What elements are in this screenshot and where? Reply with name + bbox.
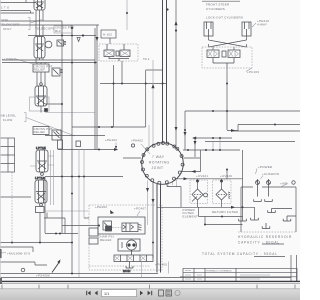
svg-text:FLOW: FLOW: [3, 118, 12, 122]
svg-text:+AIR: +AIR: [280, 182, 288, 186]
wire: [126, 0, 128, 30]
power filter F1: [190, 179, 208, 208]
flow arrows: [96, 21, 236, 209]
title block cell marks: [185, 271, 270, 280]
wire: [71, 25, 73, 274]
tank symbol T5: [283, 216, 296, 221]
wire: [0, 273, 158, 275]
label PH402b: [95, 205, 114, 214]
wire: [62, 225, 98, 227]
wire: [45, 176, 123, 178]
charge relief block: [98, 217, 145, 234]
breather B2: [267, 179, 271, 197]
nav next button: [140, 291, 152, 295]
wire: [149, 60, 153, 147]
wire: [113, 65, 115, 127]
wire: [147, 181, 149, 226]
label lower: [2, 57, 33, 64]
svg-text:+MU100W SYS: +MU100W SYS: [7, 252, 30, 256]
svg-text:RETURN FILTER: RETURN FILTER: [212, 210, 239, 214]
svg-text:+PH102: +PH102: [105, 138, 117, 142]
wire: [0, 242, 72, 244]
label PH102: [105, 138, 117, 149]
wire: [0, 20, 62, 22]
wire: [44, 177, 46, 233]
tank symbol T2: [265, 199, 273, 201]
label H-102: [101, 30, 116, 44]
wire: [226, 169, 228, 179]
wire: [195, 137, 232, 139]
svg-text:LPT15: LPT15: [36, 146, 46, 150]
dim icon: [175, 290, 180, 295]
wire: [167, 184, 181, 207]
wire: [79, 150, 84, 278]
border shadow line: [0, 283, 300, 285]
wire: [184, 111, 186, 150]
leader to joint: [141, 144, 150, 154]
reservoir tank outline: [238, 187, 296, 232]
svg-text:TA 1: TA 1: [143, 57, 150, 61]
svg-text:HYDRAULIC SCHEMATIC: HYDRAULIC SCHEMATIC: [206, 270, 232, 273]
nav first-page button: [86, 291, 97, 295]
sheet bottom border: [0, 280, 300, 282]
breather B1: [256, 179, 260, 197]
svg-text:JOINT: JOINT: [152, 166, 164, 170]
wire: [194, 138, 196, 157]
wire: [168, 180, 177, 187]
label front steer cylinders: [202, 1, 243, 19]
legend box: [0, 138, 15, 172]
svg-text:+LOWER: +LOWER: [2, 57, 17, 61]
svg-text:LOCK-OUT CYLINDERS: LOCK-OUT CYLINDERS: [206, 16, 243, 20]
wire: [152, 182, 154, 259]
wire: [0, 277, 291, 279]
svg-text:+PH402: +PH402: [131, 139, 143, 143]
valve section V4: [30, 146, 54, 175]
brake valve assembly: [99, 44, 138, 61]
lockout valve block: [202, 47, 252, 68]
wire: [199, 207, 243, 216]
wire: [238, 124, 300, 126]
wire return bus: [166, 0, 168, 143]
steer cylinder left: [204, 22, 213, 36]
note mb level flow: [0, 113, 75, 137]
scan edge mark: [0, 278, 2, 284]
wire: [156, 184, 158, 273]
wire: [45, 210, 88, 212]
wire: [205, 141, 295, 143]
pilot dash line: [89, 265, 150, 267]
relief valve R3: [33, 64, 63, 76]
svg-text:RELIEF: RELIEF: [34, 130, 46, 134]
svg-text:+CUSHION: +CUSHION: [262, 172, 279, 176]
wire: [0, 0, 36, 3]
label PH402: [131, 139, 143, 148]
wire: [226, 68, 228, 130]
valve section V2: [34, 21, 45, 63]
wire: [227, 125, 238, 132]
wire: [175, 0, 177, 147]
svg-text:+POWER: +POWER: [258, 165, 273, 169]
wire: [181, 150, 201, 172]
svg-text:TELESCOPE: TELESCOPE: [35, 27, 55, 31]
wire: [61, 21, 63, 233]
7-way rotating joint U10: [141, 142, 185, 185]
scrollbar strip: [0, 284, 300, 289]
label PH410: [252, 19, 269, 27]
svg-text:+CV420: +CV420: [220, 174, 232, 178]
wire: [0, 196, 31, 198]
svg-text:7 WAY: 7 WAY: [152, 155, 165, 159]
svg-text:+PC407: +PC407: [134, 207, 146, 211]
svg-text:ELEMENT: ELEMENT: [183, 214, 199, 218]
wire: [232, 130, 300, 132]
svg-text:RELIEF: RELIEF: [34, 68, 46, 72]
wire: [45, 233, 78, 235]
svg-text:CYLINDERS: CYLINDERS: [206, 7, 225, 11]
scrollbar ticks: [2, 285, 295, 289]
wire filter header: [175, 178, 243, 180]
wire: [51, 150, 54, 205]
svg-text:RLF: RLF: [55, 29, 61, 33]
svg-text:+PH402: +PH402: [95, 205, 107, 209]
wire: [183, 149, 240, 151]
wire: [45, 103, 62, 105]
wire: [185, 110, 300, 112]
tank T7: [123, 262, 133, 273]
wire: [100, 61, 167, 127]
return filter F2: [213, 179, 232, 208]
svg-text:+CV421: +CV421: [196, 174, 208, 178]
toolbar icons: [159, 290, 172, 296]
svg-text:RELIEF: RELIEF: [100, 238, 112, 242]
wire: [58, 149, 114, 151]
svg-text:ROTATING: ROTATING: [149, 161, 170, 165]
valve section V3: [30, 63, 50, 113]
small box: [58, 140, 63, 149]
wire: [0, 24, 99, 26]
svg-text:LPT16: LPT16: [35, 176, 45, 180]
node dot: [226, 169, 228, 171]
cross port relief R2: [45, 40, 66, 48]
svg-text:+PC405: +PC405: [155, 263, 167, 267]
svg-text:+PS4006: +PS4006: [36, 274, 50, 278]
svg-text:MCH: MCH: [123, 269, 130, 273]
page edge line: [0, 0, 2, 281]
steer cylinder right: [242, 22, 251, 36]
svg-text:1/1: 1/1: [104, 292, 109, 296]
relief valve R4: [33, 127, 61, 141]
small valve block: [76, 141, 81, 147]
manifold spool strip: [114, 255, 153, 262]
wire: [242, 150, 244, 221]
label PC103: [246, 68, 259, 74]
tank symbol T3: [251, 218, 259, 220]
tank symbol T7b: [239, 219, 247, 221]
wire: [184, 157, 201, 159]
svg-text:TELESCOPE: TELESCOPE: [0, 22, 20, 26]
scan edge mark: [0, 249, 2, 258]
svg-text:ONLY: ONLY: [3, 27, 12, 31]
wire: [205, 217, 243, 225]
wire: [28, 35, 96, 37]
svg-text:H-102: H-102: [103, 33, 112, 37]
border verticals right: [291, 255, 297, 281]
circled mark: [21, 268, 25, 272]
tank symbol T1: [254, 199, 262, 201]
svg-text:HYDRAULIC RESERVOIR: HYDRAULIC RESERVOIR: [238, 235, 292, 239]
tank symbol T6: [262, 223, 270, 229]
valve section V5: [35, 176, 47, 243]
svg-text:4-WAY: 4-WAY: [257, 22, 267, 26]
wire pressure bus: [162, 0, 164, 144]
wire return header: [157, 207, 255, 220]
svg-text:+PC103: +PC103: [247, 70, 259, 74]
power unit enclosure: [89, 205, 162, 270]
wire: [123, 157, 141, 159]
label PS4006: [36, 259, 61, 277]
wire: [11, 172, 13, 242]
label power: [256, 165, 296, 188]
wire: [95, 25, 97, 150]
wire: [84, 217, 89, 219]
note telescope only: [0, 18, 42, 31]
tank symbol T4: [268, 209, 292, 213]
svg-text:1 T O: 1 T O: [1, 6, 10, 10]
label cross prt rlf: [54, 26, 74, 34]
svg-text:TION: TION: [0, 18, 8, 22]
note box: [0, 247, 47, 265]
wire: [45, 135, 105, 137]
wire: [45, 112, 95, 114]
wire: [213, 138, 220, 150]
wire: [72, 126, 146, 128]
valve section V1 telescope: [34, 0, 45, 25]
svg-text:TOTAL SYSTEM CAPACITY - 95GAL: TOTAL SYSTEM CAPACITY - 95GAL: [202, 252, 278, 256]
open arrow: [77, 38, 80, 42]
component boxes lower left: [36, 207, 99, 245]
label PC407: [134, 207, 146, 217]
page input box: [102, 290, 137, 297]
title block: [180, 268, 297, 281]
wire: [2, 60, 97, 63]
wire: [160, 185, 162, 273]
crossover hoses: [209, 36, 247, 50]
node dots: [11, 8, 276, 274]
wire: [0, 11, 34, 14]
pump P1: [118, 239, 140, 255]
wire: [142, 262, 169, 278]
